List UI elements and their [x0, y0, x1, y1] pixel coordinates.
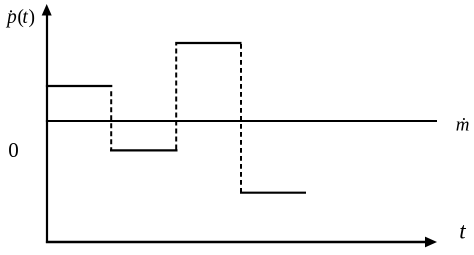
svg-text:t: t	[459, 218, 466, 243]
step segment 4	[240, 192, 306, 194]
svg-text:p(t): p(t)	[5, 7, 35, 28]
step segment 3	[175, 42, 241, 44]
y-axis arrowhead	[42, 4, 52, 16]
svg-text:0: 0	[8, 138, 19, 162]
step segment 1	[46, 85, 112, 87]
step segment 2	[110, 149, 178, 151]
label p-dot(t)	[10, 10, 12, 12]
dashed transition 2	[175, 44, 177, 150]
y-axis ṗ(t) axis line	[46, 13, 48, 243]
mass-flow reference line m-dot	[46, 120, 437, 122]
svg-text:ṁ: ṁ	[456, 115, 470, 136]
x-axis arrowhead	[425, 237, 437, 248]
dashed transition 3	[240, 44, 242, 192]
dashed transition 1	[110, 91, 112, 150]
x-axis t axis line	[46, 241, 426, 243]
